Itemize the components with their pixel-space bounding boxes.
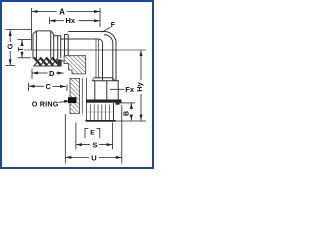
svg-text:T: T <box>18 46 25 51</box>
svg-text:F: F <box>111 22 116 29</box>
svg-text:S: S <box>92 141 97 150</box>
svg-text:C: C <box>46 82 52 91</box>
svg-text:E: E <box>90 130 95 137</box>
svg-text:U: U <box>91 153 96 162</box>
svg-text:A: A <box>59 7 65 16</box>
svg-text:G: G <box>6 43 15 49</box>
svg-text:B: B <box>123 111 130 116</box>
svg-text:D: D <box>49 69 55 78</box>
svg-text:Hx: Hx <box>66 16 76 25</box>
svg-text:O RING: O RING <box>32 99 59 108</box>
svg-text:Fx: Fx <box>125 85 135 94</box>
svg-text:Hy: Hy <box>135 81 144 91</box>
